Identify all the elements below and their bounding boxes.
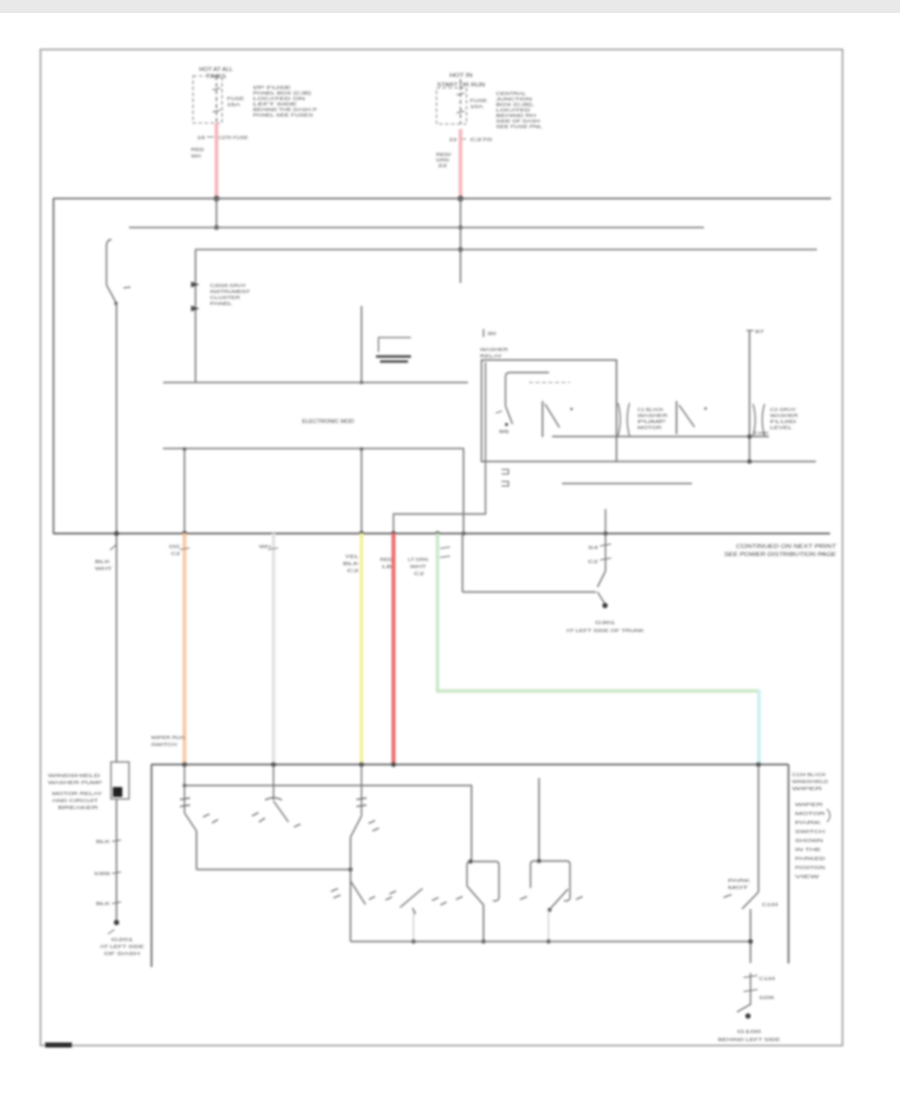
bracket motor label xyxy=(827,809,830,822)
wire stub into M1 xyxy=(361,306,363,383)
connector C2 inline arcs xyxy=(618,403,630,436)
wire M1 to yellow drop xyxy=(361,449,363,534)
wiper motor box right edge xyxy=(788,765,790,964)
junction dot S8 feed xyxy=(468,859,472,863)
fuse F2 (hot in run) xyxy=(437,79,467,124)
wire S9 faint leg xyxy=(548,910,550,942)
washer pump label text left upper xyxy=(48,773,102,785)
module M1 bottom line xyxy=(163,448,464,450)
svg-text:G201: G201 xyxy=(111,937,134,942)
junction dot S9 leg xyxy=(546,939,550,943)
svg-text:WHT: WHT xyxy=(410,564,427,569)
switch S4 intermittent wafer xyxy=(252,765,301,828)
junction dot corner wire xyxy=(462,532,466,536)
solid state icon U1 xyxy=(376,338,411,362)
junction dot S7 leg xyxy=(411,939,415,943)
svg-text:ELECTRONIC MOD: ELECTRONIC MOD xyxy=(302,419,354,425)
ground G100 label xyxy=(718,1029,780,1042)
svg-text:BLK: BLK xyxy=(343,561,359,566)
wire S3 output xyxy=(196,831,198,870)
relay K1 name label xyxy=(480,347,509,360)
connector C2 text block xyxy=(638,407,668,430)
junction dot F1/bus2 xyxy=(214,225,219,230)
fuse F2 value label xyxy=(470,98,487,109)
svg-text:PARK: PARK xyxy=(728,878,752,883)
svg-text:C134 BLACK: C134 BLACK xyxy=(792,772,826,777)
svg-text:LB: LB xyxy=(382,564,392,569)
svg-text:JUNCTION: JUNCTION xyxy=(496,97,532,102)
svg-text:15A: 15A xyxy=(227,102,241,107)
wire color label red xyxy=(380,557,392,569)
wire pink from F1 to bus xyxy=(215,123,219,199)
switch S5 high wafer xyxy=(351,765,380,838)
junction dot green top xyxy=(435,531,440,536)
svg-text:PANEL SEE FUSES: PANEL SEE FUSES xyxy=(253,113,313,118)
svg-text:S306: S306 xyxy=(94,871,111,876)
svg-text:S4: S4 xyxy=(588,545,599,550)
wire ground link horizontal xyxy=(463,591,597,593)
relay K1 coil xyxy=(506,373,550,425)
relay K1 coil dash line xyxy=(529,382,570,384)
svg-text:C2 GRAY: C2 GRAY xyxy=(770,407,796,412)
svg-text:10A: 10A xyxy=(470,104,484,109)
wire yellow xyxy=(360,534,364,765)
wire relay bottom rail xyxy=(617,461,817,463)
junction dot S8 leg xyxy=(481,939,485,943)
svg-text:C270 FUSE: C270 FUSE xyxy=(218,135,248,140)
svg-text:WH: WH xyxy=(191,154,201,159)
switch S1 (left, ignition feed) xyxy=(107,240,131,306)
ground G301 label xyxy=(566,620,645,633)
svg-text:22: 22 xyxy=(449,137,458,142)
washer pump icon box left xyxy=(111,762,129,799)
svg-text:C160: C160 xyxy=(754,431,769,436)
svg-text:RELAY: RELAY xyxy=(480,354,503,360)
junction dot F2/bus1 xyxy=(458,196,464,202)
svg-text:S206: S206 xyxy=(759,995,775,1000)
svg-text:WINDSHIELD: WINDSHIELD xyxy=(792,779,828,784)
svg-text:WIPER RUN: WIPER RUN xyxy=(151,735,186,741)
bus B2 xyxy=(129,227,704,229)
wire S5 leg down xyxy=(350,837,352,942)
wire left chain vertical xyxy=(116,304,118,763)
svg-text:I/P FUSE: I/P FUSE xyxy=(253,85,291,90)
motor connector label block B xyxy=(795,802,825,879)
CJB box bottom bus xyxy=(53,533,830,535)
svg-text:C2: C2 xyxy=(588,559,599,564)
svg-text:TIMES: TIMES xyxy=(206,74,227,80)
svg-text:VIEW: VIEW xyxy=(795,874,821,879)
svg-text:PUMP: PUMP xyxy=(638,419,666,424)
module M1 pigtail from bus B3 xyxy=(195,250,197,383)
wire S3/S5 common rail xyxy=(197,869,351,871)
svg-text:C2028 GRAY: C2028 GRAY xyxy=(210,283,246,288)
svg-text:LEFT SIDE: LEFT SIDE xyxy=(253,102,297,107)
svg-text:PANEL BOX (CJB): PANEL BOX (CJB) xyxy=(253,91,312,96)
connector C3 inline arcs xyxy=(753,404,765,436)
connector ticks green xyxy=(440,547,450,558)
junction dots on motor box top edge xyxy=(182,762,761,767)
ground chain G301 xyxy=(588,509,611,608)
svg-text:MOTOR: MOTOR xyxy=(638,425,662,430)
CJB box left edge xyxy=(53,199,55,534)
connector tick label BLK 3 xyxy=(96,901,121,906)
fuse F1 connector label row xyxy=(197,135,248,140)
junction dot F2/bus3 xyxy=(458,247,463,252)
relay K1 switch bar xyxy=(542,401,544,437)
svg-text:LT GRN: LT GRN xyxy=(408,557,428,562)
svg-text:CONTINUED ON NEXT PRINT: CONTINUED ON NEXT PRINT xyxy=(736,544,837,550)
junction dot orange top xyxy=(182,531,187,536)
relay K1 pin tick above box xyxy=(484,329,498,337)
top gray strip xyxy=(0,0,900,13)
wire color label left chain xyxy=(95,559,113,571)
fuse F2 label HOT IN RUN xyxy=(437,73,485,89)
svg-text:SEE POWER DISTRIBUTION PAGE: SEE POWER DISTRIBUTION PAGE xyxy=(724,552,837,558)
svg-text:FUSE: FUSE xyxy=(470,98,487,103)
svg-text:16: 16 xyxy=(197,135,206,140)
connector tick label BLK 2 xyxy=(94,871,121,876)
fuse F1 side text block (junction box) xyxy=(253,85,317,118)
svg-text:BEHIND LEFT SIDE: BEHIND LEFT SIDE xyxy=(718,1037,780,1042)
wiper motor MOT label xyxy=(728,878,752,890)
wire orange xyxy=(183,534,187,765)
fuse F1 value label 15A xyxy=(227,96,244,107)
svg-text:22: 22 xyxy=(438,163,448,168)
svg-text:OG: OG xyxy=(169,544,181,549)
svg-text:G100: G100 xyxy=(737,1029,762,1034)
wire F1 stub to bus2 xyxy=(216,199,218,228)
svg-text:HOT IN: HOT IN xyxy=(450,73,473,79)
svg-text:WASHER PUMP: WASHER PUMP xyxy=(48,780,102,785)
relay K1 switch contact dot xyxy=(570,408,573,411)
wire ground link vertical xyxy=(462,534,464,593)
svg-text:BREAKER: BREAKER xyxy=(58,805,98,810)
svg-text:BEHIND THE DASH P: BEHIND THE DASH P xyxy=(253,107,317,112)
wiper switch name label xyxy=(151,735,186,748)
svg-text:85: 85 xyxy=(499,429,510,434)
svg-text:INSTRUMENT: INSTRUMENT xyxy=(210,289,250,294)
junction dot common rail xyxy=(348,867,352,871)
svg-text:PARK: PARK xyxy=(795,820,821,825)
svg-text:LEVEL: LEVEL xyxy=(770,425,793,430)
junction dot ground chain on bus xyxy=(603,531,607,535)
svg-text:SWITCH: SWITCH xyxy=(151,742,178,748)
svg-text:RED/: RED/ xyxy=(436,152,452,157)
svg-text:YEL: YEL xyxy=(345,554,360,559)
wire cyan drop xyxy=(757,690,760,764)
wire motor park feed xyxy=(758,765,760,893)
svg-text:BLK: BLK xyxy=(95,559,110,564)
connector tick label BLK 1 xyxy=(96,839,121,844)
motor connector label block A xyxy=(792,772,828,791)
junction dot red drop xyxy=(391,531,396,536)
junction dot motor return xyxy=(748,939,753,944)
svg-text:SIDE OF DASH: SIDE OF DASH xyxy=(496,119,540,124)
fuse F2 side text block xyxy=(496,91,543,129)
switch S3 low-speed wafer xyxy=(180,765,218,832)
svg-text:SWITCH: SWITCH xyxy=(795,829,825,834)
svg-text:LOCATED: LOCATED xyxy=(496,108,531,113)
svg-text:WASHER: WASHER xyxy=(638,413,668,418)
wire S7 faint leg xyxy=(413,912,415,942)
svg-text:CLUSTER: CLUSTER xyxy=(210,295,241,300)
switch S10 park contact xyxy=(724,892,759,909)
fuse F1 wire color label RED xyxy=(191,147,204,159)
svg-text:AT LEFT SIDE OF TRUNK: AT LEFT SIDE OF TRUNK xyxy=(566,628,645,633)
page mark bottom-left xyxy=(45,1043,72,1048)
relay K1 coil pivot dot xyxy=(505,423,508,426)
junction dot F1/bus1 xyxy=(214,196,220,202)
svg-text:WH: WH xyxy=(259,544,271,549)
wire M1 to orange drop xyxy=(184,449,186,534)
svg-text:HOT AT ALL: HOT AT ALL xyxy=(199,67,233,73)
switch S6 lower-left wafer xyxy=(331,881,375,905)
svg-text:WINDSHIELD: WINDSHIELD xyxy=(48,773,100,778)
svg-text:PANEL: PANEL xyxy=(210,301,233,306)
svg-text:START OR RUN: START OR RUN xyxy=(437,83,485,89)
wire relay pin 86 drop xyxy=(394,362,486,534)
wire red xyxy=(392,534,396,765)
ground tick left chain xyxy=(108,930,115,935)
svg-text:C270: C270 xyxy=(470,137,493,142)
fuse F1 (hot at all times) xyxy=(193,76,222,123)
junction dot inner bus left xyxy=(183,784,187,788)
svg-text:MOTOR: MOTOR xyxy=(795,811,825,816)
svg-text:SHOWN: SHOWN xyxy=(795,838,823,843)
wire washer relay feed vertical xyxy=(747,329,766,462)
svg-text:WASHER: WASHER xyxy=(480,347,509,353)
svg-text:IN THE: IN THE xyxy=(795,847,821,852)
svg-text:C134: C134 xyxy=(762,902,779,907)
junction dot bottom rail xyxy=(747,459,752,464)
wire washer output rail xyxy=(552,436,769,438)
junction dot yellow top xyxy=(359,531,364,536)
relay K1 box xyxy=(482,360,617,462)
svg-text:BOX (CJB),: BOX (CJB), xyxy=(496,102,534,107)
junction dot orange drop top xyxy=(183,447,187,451)
wire stub floating xyxy=(562,483,692,485)
connector tick white xyxy=(268,548,278,550)
svg-text:WASHER: WASHER xyxy=(770,413,798,418)
wire left chain lower xyxy=(116,799,118,922)
svg-text:C1 BLACK: C1 BLACK xyxy=(638,407,664,412)
junction dot stub on M1 top xyxy=(360,381,363,384)
connector tick left chain xyxy=(110,545,116,550)
module M1 top line xyxy=(163,382,468,384)
junction dot S9 feed xyxy=(537,859,541,863)
svg-text:BLK: BLK xyxy=(96,839,110,844)
svg-text:CENTRAL: CENTRAL xyxy=(496,91,527,96)
connector C3 text block xyxy=(770,407,798,430)
svg-text:SEE FUSE PNL: SEE FUSE PNL xyxy=(496,124,543,129)
svg-text:POSITION: POSITION xyxy=(795,865,825,870)
ground chain G100 xyxy=(737,973,776,1019)
svg-text:AT LEFT SIDE: AT LEFT SIDE xyxy=(100,944,144,949)
svg-text:MOT: MOT xyxy=(728,885,748,890)
svg-text:C2: C2 xyxy=(171,551,181,556)
svg-text:WIPER: WIPER xyxy=(792,786,822,791)
junction dot yellow drop top xyxy=(360,447,364,451)
switch S2 washer xyxy=(677,401,707,434)
fuse F1 label HOT AT ALL TIMES xyxy=(199,67,233,80)
connector C1 arrows on module M1 wire xyxy=(191,282,200,312)
contact dot S9 blade xyxy=(548,908,552,912)
inner bus park feed xyxy=(185,786,472,862)
bus B3 xyxy=(195,249,817,251)
wire color label green xyxy=(408,557,428,576)
wire S8 leg down xyxy=(483,906,485,942)
wire white xyxy=(272,534,275,765)
svg-text:RED: RED xyxy=(191,147,204,152)
svg-text:C2: C2 xyxy=(347,568,360,573)
relay K1 coil contact dash xyxy=(496,411,502,413)
wire motor return drop xyxy=(750,909,752,963)
svg-text:WIPER: WIPER xyxy=(795,802,823,807)
junction dot F2/bus2 xyxy=(458,225,462,229)
junction dot left chain on CJB bottom bus xyxy=(114,531,119,536)
washer pump label text left lower xyxy=(52,791,102,810)
svg-text:MOTOR RELAY: MOTOR RELAY xyxy=(52,791,102,796)
switch S8 bridge wafer xyxy=(456,862,499,906)
connector C1 text block xyxy=(210,283,250,306)
connector ticks on hidden coil wire xyxy=(502,470,509,487)
switch S7 lower-middle wafer xyxy=(386,889,447,915)
ground label left chain xyxy=(100,937,144,956)
wire color label yellow xyxy=(343,554,360,573)
svg-text:BLK: BLK xyxy=(96,901,110,906)
bus B1 top of CJB box xyxy=(53,198,831,200)
switch S9 bridge wafer xyxy=(520,861,583,910)
svg-text:WHT: WHT xyxy=(95,566,113,571)
svg-text:87: 87 xyxy=(755,329,765,334)
svg-text:C134: C134 xyxy=(759,976,776,981)
svg-text:OF DASH: OF DASH xyxy=(104,951,140,956)
svg-text:FUSE: FUSE xyxy=(227,96,244,101)
wire corner from M1 to CJB bottom xyxy=(463,449,465,534)
wiper motor box left edge xyxy=(151,765,153,968)
wire green with corner xyxy=(438,534,760,692)
continued note text xyxy=(724,544,837,558)
svg-text:G301: G301 xyxy=(595,620,616,625)
wire color label white xyxy=(259,544,271,549)
wire S9 feed from above xyxy=(538,778,540,861)
svg-text:RED: RED xyxy=(380,557,392,562)
svg-text:C2: C2 xyxy=(414,571,425,576)
relay K1 switch blade xyxy=(545,404,560,428)
wire pink from F2 to bus xyxy=(459,129,463,199)
svg-text:AND CIRCUIT: AND CIRCUIT xyxy=(52,798,99,803)
fuse F2 connector label row xyxy=(449,137,493,142)
wiper motor box top edge xyxy=(151,764,789,766)
wire F2 drop below buses xyxy=(460,199,462,284)
bus motor return xyxy=(351,941,751,943)
ground dot left chain xyxy=(114,920,119,925)
svg-text:GRN: GRN xyxy=(436,158,449,163)
fuse F2 wire color label xyxy=(436,152,452,168)
connector tick orange xyxy=(180,548,190,550)
svg-text:BEHIND RH: BEHIND RH xyxy=(496,113,536,118)
svg-text:30: 30 xyxy=(487,331,497,336)
svg-text:PARKED: PARKED xyxy=(795,856,825,861)
junction dot rail/feed xyxy=(747,434,752,439)
wire color label orange xyxy=(169,544,181,556)
svg-text:FLUID: FLUID xyxy=(770,419,796,424)
svg-text:LOCATED ON: LOCATED ON xyxy=(253,96,305,101)
